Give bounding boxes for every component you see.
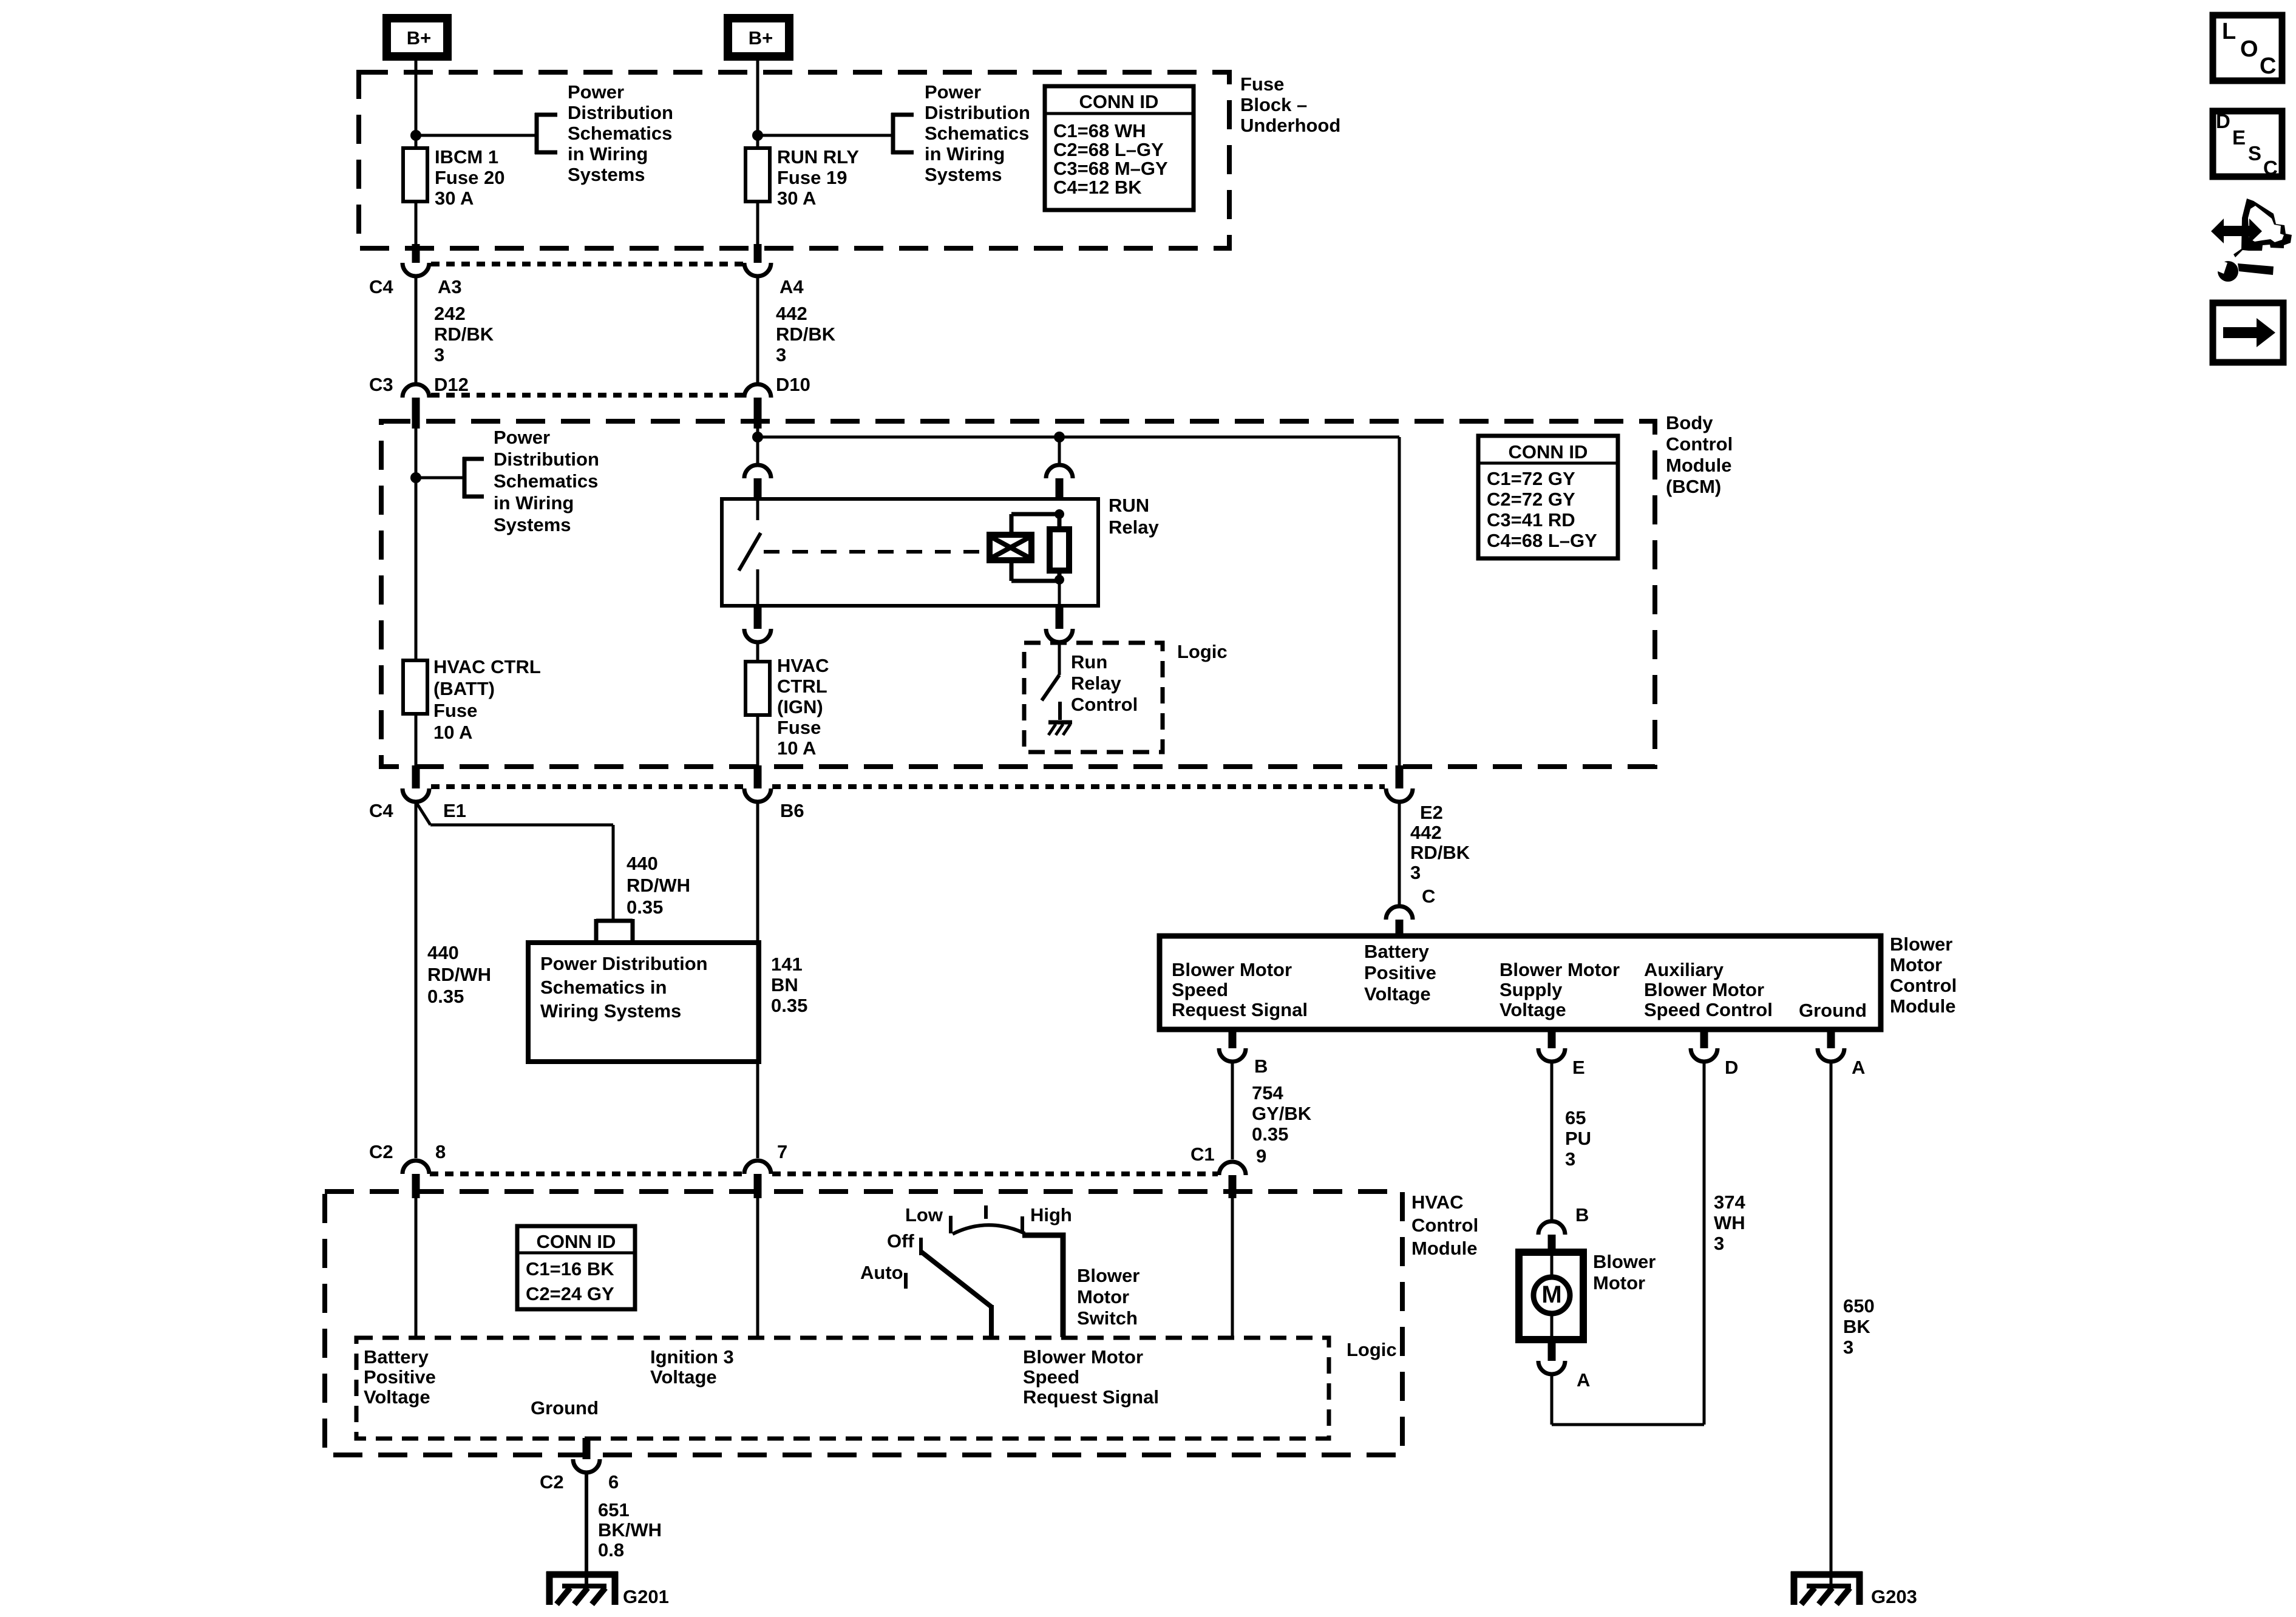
svg-text:E1: E1 [443, 800, 466, 821]
svg-text:C2: C2 [540, 1471, 564, 1493]
connector cup relay pin3 [744, 465, 771, 478]
connector cup HVAC x685 [402, 1161, 429, 1174]
label C2 row4 [369, 1141, 393, 1162]
svg-text:HVAC CTRL: HVAC CTRL [433, 656, 541, 677]
label C4 row3 [369, 800, 393, 821]
wire 754 GY/BK [1231, 1062, 1234, 1159]
label blower motor control module [1890, 934, 1957, 1017]
connector dotted line row4 b [772, 1171, 1218, 1176]
label fuse 20 [435, 146, 504, 209]
label body control module [1666, 412, 1733, 497]
svg-text:C4: C4 [369, 800, 393, 821]
connector cup pin B [1219, 1048, 1246, 1062]
svg-text:O: O [2240, 36, 2258, 62]
connector pin stub pin C [1396, 920, 1404, 937]
svg-text:651: 651 [598, 1499, 630, 1520]
svg-text:Power: Power [494, 427, 550, 448]
svg-text:RD/WH: RD/WH [627, 875, 690, 896]
svg-text:HVAC: HVAC [1411, 1192, 1464, 1213]
svg-text:E: E [1572, 1057, 1585, 1078]
svg-text:Blower: Blower [1890, 934, 1952, 955]
connector pin stub C4-A4 [754, 244, 762, 263]
icon adjust hand wrench [2211, 198, 2292, 282]
svg-text:A: A [1577, 1369, 1590, 1391]
svg-text:G201: G201 [623, 1586, 669, 1607]
label power distribution schematics 3 [494, 427, 599, 535]
svg-text:754: 754 [1252, 1082, 1283, 1103]
logic dashed box run relay control [1024, 643, 1163, 752]
svg-text:in Wiring: in Wiring [925, 143, 1005, 164]
node junction wire2 tap [752, 130, 763, 141]
connector pin stub relay pin4 [1056, 605, 1064, 629]
svg-text:Motor: Motor [1593, 1272, 1645, 1293]
wire coil left branch upper [1011, 514, 1059, 535]
svg-text:30 A: 30 A [777, 188, 816, 209]
connector cup pin E [1538, 1048, 1565, 1062]
svg-text:Distribution: Distribution [568, 102, 673, 123]
relay box RUN relay [722, 499, 1098, 606]
label circuit 754 [1252, 1082, 1312, 1145]
label circuit 442b [1410, 822, 1470, 883]
svg-text:(IGN): (IGN) [777, 696, 823, 717]
svg-text:Blower: Blower [1077, 1265, 1140, 1286]
label circuit 374 [1714, 1192, 1745, 1254]
svg-text:Distribution: Distribution [925, 102, 1030, 123]
label circuit 141 [771, 954, 807, 1016]
label pin D [1725, 1057, 1738, 1078]
svg-text:A: A [1852, 1057, 1865, 1078]
label B6 [780, 800, 804, 821]
svg-text:Low: Low [905, 1204, 943, 1225]
power feed B+ terminal 1 [387, 18, 447, 56]
svg-text:D: D [1725, 1057, 1738, 1078]
wire ign fuse to B6 [756, 715, 759, 768]
svg-text:3: 3 [776, 344, 786, 365]
svg-text:Systems: Systems [494, 514, 571, 535]
svg-text:440: 440 [627, 853, 658, 874]
svg-text:M: M [1541, 1281, 1561, 1308]
svg-text:CONN ID: CONN ID [1079, 91, 1159, 112]
svg-text:L: L [2222, 19, 2236, 44]
switch contact high [1021, 1216, 1024, 1232]
svg-text:Control: Control [1666, 433, 1733, 455]
relay switch blade [739, 533, 761, 571]
svg-text:RUN RLY: RUN RLY [777, 146, 859, 168]
wire E2 to pin C [1398, 802, 1401, 907]
switch contact low [949, 1216, 953, 1233]
blower motor control module box [1160, 936, 1881, 1029]
svg-text:30 A: 30 A [435, 188, 474, 209]
label circuit 440 branch [627, 853, 690, 918]
switch contact mid [984, 1205, 988, 1219]
svg-text:BN: BN [771, 974, 798, 995]
label G203 [1871, 1586, 1917, 1607]
node relay coil bottom [1055, 575, 1064, 585]
wire 440 RD/WH main [415, 802, 418, 1158]
svg-text:650: 650 [1843, 1295, 1875, 1317]
svg-text:C1=16 BK: C1=16 BK [526, 1258, 614, 1280]
wire E1 branch diagonal [416, 802, 430, 825]
svg-text:(BATT): (BATT) [433, 678, 495, 699]
wire 65 PU [1550, 1062, 1554, 1221]
conn id table HVAC [517, 1226, 635, 1309]
svg-text:Blower Motor: Blower Motor [1172, 959, 1292, 980]
svg-text:S: S [2248, 142, 2261, 164]
wire coil to relay pin4 [1058, 581, 1061, 606]
relay coil suppression resistor [1050, 529, 1069, 571]
connector pin stub blower motor A [1548, 1338, 1556, 1361]
svg-text:442: 442 [1410, 822, 1442, 843]
svg-text:Blower Motor: Blower Motor [1644, 979, 1764, 1000]
svg-text:Fuse: Fuse [433, 700, 477, 721]
hvac control module dashed box [325, 1192, 1402, 1455]
svg-text:Off: Off [887, 1230, 914, 1252]
wire fuse19 to C4-A4 [756, 200, 759, 246]
svg-text:Supply: Supply [1500, 979, 1563, 1000]
svg-text:D10: D10 [776, 374, 810, 395]
wire D10 into BCM [756, 422, 759, 463]
label circuit 442a [776, 303, 836, 365]
label circuit 651 [598, 1499, 662, 1561]
wire D12 to batt fuse [415, 422, 418, 662]
connector cup ground C2-6 [573, 1459, 600, 1473]
svg-text:C3=41 RD: C3=41 RD [1487, 509, 1575, 531]
svg-text:3: 3 [1565, 1148, 1575, 1170]
svg-text:440: 440 [427, 942, 459, 963]
connector cup C3-D12 [402, 384, 429, 398]
svg-text:Fuse 20: Fuse 20 [435, 167, 504, 188]
connector cup HVAC C1-9 [1219, 1162, 1246, 1175]
label pin C [1422, 886, 1435, 907]
wire 374 WH [1703, 1062, 1706, 1425]
logic ground run relay control [1048, 722, 1072, 735]
svg-text:WH: WH [1714, 1212, 1745, 1233]
svg-text:E2: E2 [1420, 802, 1443, 823]
icon DESC box [2213, 110, 2282, 179]
connector pin stub B6 [754, 765, 762, 788]
label pin 8 [435, 1141, 446, 1162]
label circuit 65 [1565, 1107, 1591, 1170]
svg-text:C4=12 BK: C4=12 BK [1053, 177, 1142, 198]
label switch Auto [860, 1262, 903, 1283]
wire coil drop [1058, 437, 1061, 463]
svg-text:Logic: Logic [1347, 1339, 1397, 1360]
connector dotted line row1 [431, 262, 743, 266]
label blower motor pin A [1577, 1369, 1590, 1391]
svg-text:Module: Module [1411, 1238, 1478, 1259]
label hvac control module [1411, 1192, 1478, 1259]
svg-text:Body: Body [1666, 412, 1713, 433]
icon arrow box [2213, 303, 2283, 362]
svg-text:Voltage: Voltage [364, 1386, 430, 1408]
svg-text:E: E [2232, 126, 2246, 149]
connector cup C4-E1 [402, 788, 429, 802]
svg-text:10 A: 10 A [433, 722, 472, 743]
connector pin stub ground C2-6 [583, 1438, 591, 1459]
svg-text:0.35: 0.35 [627, 897, 663, 918]
label blower motor pin B [1575, 1204, 1589, 1225]
svg-text:CTRL: CTRL [777, 676, 827, 697]
svg-text:B+: B+ [407, 27, 432, 49]
svg-text:Power: Power [925, 81, 981, 103]
svg-text:in Wiring: in Wiring [568, 143, 648, 164]
label pin auxiliary blower motor speed control [1644, 959, 1773, 1020]
connector pin stub D [1700, 1028, 1708, 1048]
svg-text:6: 6 [608, 1471, 619, 1493]
svg-text:7: 7 [777, 1141, 787, 1162]
connector pin stub HVAC C1-9 [1229, 1175, 1237, 1198]
wire 442 RD/BK segment a [756, 276, 759, 384]
svg-text:BK: BK [1843, 1316, 1870, 1337]
label blower motor switch [1077, 1265, 1140, 1329]
label C4 row1 [369, 276, 393, 297]
svg-text:D: D [2216, 110, 2230, 132]
svg-text:C: C [2260, 53, 2276, 79]
svg-text:RD/BK: RD/BK [1410, 842, 1470, 863]
wire fuse20 to C4-A3 [415, 200, 418, 246]
switch high leg [1022, 1235, 1063, 1337]
svg-text:C1: C1 [1190, 1144, 1215, 1165]
svg-text:Distribution: Distribution [494, 449, 599, 470]
svg-text:Ignition 3: Ignition 3 [650, 1346, 734, 1368]
label C2 ground [540, 1471, 564, 1493]
fuse block underhood dashed box [359, 72, 1229, 248]
svg-text:Control: Control [1411, 1215, 1478, 1236]
label power distribution schematics 2 [925, 81, 1030, 185]
svg-text:442: 442 [776, 303, 807, 324]
svg-text:Control: Control [1071, 694, 1138, 715]
connector pin stub relay pin1 [754, 605, 762, 629]
label logic BCM [1177, 641, 1228, 662]
svg-text:Ground: Ground [531, 1397, 599, 1419]
svg-text:RD/WH: RD/WH [427, 964, 491, 985]
fuse HVAC CTRL BATT 10A [403, 660, 427, 714]
fuse F20 IBCM 1 30A [403, 148, 427, 202]
svg-text:Ground: Ground [1799, 1000, 1867, 1021]
label fuse 19 [777, 146, 859, 209]
conn id table BCM [1478, 436, 1618, 558]
svg-text:0.35: 0.35 [427, 986, 464, 1007]
node junction wire1 tap [410, 130, 421, 141]
node relay coil top [1055, 509, 1064, 519]
svg-text:Voltage: Voltage [1500, 999, 1566, 1020]
blower motor box [1519, 1252, 1583, 1340]
svg-text:10 A: 10 A [777, 737, 816, 759]
svg-text:PU: PU [1565, 1128, 1591, 1149]
svg-text:Speed Control: Speed Control [1644, 999, 1773, 1020]
label RUN relay [1109, 495, 1159, 538]
wire tap1 to reference bracket [416, 134, 537, 137]
label switch Off [887, 1230, 914, 1252]
node junction BCM tap [410, 472, 421, 483]
conn id table fuse block [1045, 86, 1194, 210]
svg-text:Auxiliary: Auxiliary [1644, 959, 1724, 980]
svg-text:CONN ID: CONN ID [1509, 441, 1588, 463]
svg-text:High: High [1030, 1204, 1072, 1225]
svg-text:HVAC: HVAC [777, 655, 829, 676]
svg-text:A3: A3 [438, 276, 462, 297]
connector dotted line row3 b [772, 784, 1385, 789]
connector pin stub E2 [1396, 765, 1404, 788]
switch contact off [919, 1238, 923, 1255]
connector cup pin D [1691, 1048, 1717, 1062]
power distribution reference box [528, 943, 759, 1062]
svg-text:Voltage: Voltage [650, 1366, 717, 1388]
svg-text:B+: B+ [749, 27, 773, 49]
svg-text:Relay: Relay [1071, 673, 1121, 694]
connector pin stub relay pin2 [1056, 478, 1064, 500]
label pin blower motor speed request [1172, 959, 1308, 1020]
connector cup C3-D10 [744, 384, 771, 398]
svg-text:Power: Power [568, 81, 624, 103]
connector dotted line row4 a [430, 1171, 743, 1176]
svg-text:(BCM): (BCM) [1666, 476, 1721, 497]
label circuit 650 [1843, 1295, 1875, 1358]
svg-text:0.35: 0.35 [1252, 1124, 1288, 1145]
wire coil left branch lower [1011, 560, 1059, 581]
svg-text:Positive: Positive [364, 1366, 436, 1388]
connector cup blower motor B [1538, 1221, 1565, 1235]
wire blower motor return [1552, 1374, 1704, 1425]
node junction coil feed [1054, 432, 1065, 442]
label circuit 440 main [427, 942, 491, 1007]
svg-text:Fuse: Fuse [777, 717, 821, 738]
svg-text:Motor: Motor [1890, 954, 1942, 975]
connector cup B6 [744, 788, 771, 802]
svg-text:65: 65 [1565, 1107, 1586, 1128]
svg-text:B: B [1254, 1056, 1268, 1077]
wire coil right branch [1058, 517, 1062, 581]
svg-text:Switch: Switch [1077, 1307, 1138, 1329]
svg-text:Power Distribution: Power Distribution [540, 953, 708, 974]
svg-text:B: B [1575, 1204, 1589, 1225]
svg-text:Systems: Systems [925, 164, 1002, 185]
label E1 [443, 800, 466, 821]
relay switch lower contact [756, 569, 759, 606]
svg-text:C1=68 WH: C1=68 WH [1053, 120, 1146, 141]
label pin A [1852, 1057, 1865, 1078]
svg-text:C4: C4 [369, 276, 393, 297]
svg-text:Schematics: Schematics [568, 123, 672, 144]
connector pin stub C3-D12 [412, 398, 420, 429]
svg-text:C3=68 M–GY: C3=68 M–GY [1053, 158, 1168, 179]
connector cup pin A [1818, 1048, 1844, 1062]
label switch Low [905, 1204, 943, 1225]
wire E1 branch horizontal [430, 824, 613, 827]
label ignition 3 voltage [650, 1346, 734, 1388]
svg-text:Run: Run [1071, 651, 1107, 673]
svg-text:Systems: Systems [568, 164, 645, 185]
svg-text:Control: Control [1890, 975, 1957, 996]
switch wiper blade [921, 1252, 991, 1337]
svg-text:Speed: Speed [1172, 979, 1228, 1000]
label pin 6 [608, 1471, 619, 1493]
connector pin stub C4-A3 [412, 244, 420, 263]
label C3 row2 [369, 374, 393, 395]
svg-text:C2=72 GY: C2=72 GY [1487, 489, 1575, 510]
svg-text:C: C [2263, 157, 2278, 179]
connector cup E2 [1386, 788, 1413, 802]
connector cup C4-A3 [402, 263, 429, 276]
svg-text:Battery: Battery [364, 1346, 429, 1368]
logic switch contact [1058, 702, 1062, 720]
label power distribution schematics 1 [568, 81, 673, 185]
svg-text:Module: Module [1890, 995, 1956, 1017]
ground G201 [546, 1571, 618, 1605]
svg-text:Voltage: Voltage [1364, 983, 1431, 1005]
svg-text:C4=68 L–GY: C4=68 L–GY [1487, 530, 1597, 551]
svg-text:3: 3 [1843, 1337, 1853, 1358]
svg-text:374: 374 [1714, 1192, 1745, 1213]
wire B+2 to fuse 19 [756, 61, 759, 148]
connector dotted line row2 [431, 393, 743, 398]
svg-text:3: 3 [1714, 1233, 1724, 1254]
wire speed request into logic [1231, 1198, 1234, 1339]
svg-text:Speed: Speed [1023, 1366, 1079, 1388]
label blower motor speed request [1023, 1346, 1159, 1408]
svg-text:Relay: Relay [1109, 517, 1159, 538]
svg-text:3: 3 [1410, 862, 1421, 883]
connector pin stub A [1827, 1028, 1835, 1048]
relay internal dashed link [764, 550, 988, 554]
svg-text:GY/BK: GY/BK [1252, 1103, 1312, 1124]
label hvac ctrl batt fuse [433, 656, 541, 743]
label switch High [1030, 1204, 1072, 1225]
label A3 [438, 276, 462, 297]
svg-text:Schematics: Schematics [494, 470, 598, 492]
connector cup relay pin2 [1046, 465, 1073, 478]
connector dotted line row3 a [431, 784, 743, 789]
off-page fork connector [596, 919, 633, 943]
svg-text:in Wiring: in Wiring [494, 492, 574, 514]
svg-text:IBCM 1: IBCM 1 [435, 146, 498, 168]
wire 141 BN [756, 802, 759, 1158]
logic switch blade run relay control [1042, 675, 1059, 700]
svg-text:Blower: Blower [1593, 1251, 1656, 1272]
svg-text:Underhood: Underhood [1240, 115, 1340, 136]
svg-text:CONN ID: CONN ID [537, 1231, 616, 1252]
svg-text:Battery: Battery [1364, 941, 1430, 962]
label A4 [779, 276, 804, 297]
svg-text:Request Signal: Request Signal [1023, 1386, 1159, 1408]
wire BCM to E2 [1398, 437, 1401, 768]
svg-text:Module: Module [1666, 455, 1732, 476]
icon LOC box [2213, 15, 2282, 81]
label battery positive voltage [364, 1346, 436, 1408]
relay coil element [990, 535, 1031, 560]
wire 650 BK [1830, 1062, 1833, 1586]
connector cup C4-A4 [744, 263, 771, 276]
svg-text:3: 3 [434, 344, 444, 365]
svg-text:RD/BK: RD/BK [776, 324, 836, 345]
label blower motor [1593, 1251, 1656, 1293]
svg-text:Blower Motor: Blower Motor [1500, 959, 1620, 980]
wire relay pin1 to ign fuse [756, 642, 759, 662]
svg-text:C2=68 L–GY: C2=68 L–GY [1053, 139, 1164, 160]
relay switch fixed contact [756, 499, 759, 520]
connector cup pin C [1386, 906, 1413, 920]
svg-text:G203: G203 [1871, 1586, 1917, 1607]
wire BCM main horizontal [758, 436, 1399, 439]
svg-text:A4: A4 [779, 276, 804, 297]
label D10 [776, 374, 810, 395]
svg-text:9: 9 [1256, 1145, 1266, 1167]
label pin B [1254, 1056, 1268, 1077]
wire 651 BK/WH [585, 1473, 588, 1586]
svg-text:Block –: Block – [1240, 94, 1307, 115]
svg-text:Auto: Auto [860, 1262, 903, 1283]
connector pin stub relay pin3 [754, 478, 762, 500]
